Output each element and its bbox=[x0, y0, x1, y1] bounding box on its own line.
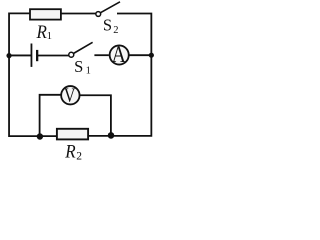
node junction bottom wire / voltmeter left bbox=[37, 133, 43, 139]
label R1 bbox=[36, 21, 53, 42]
wire battery row left bbox=[9, 54, 31, 56]
switch S1 bbox=[69, 42, 93, 57]
label R2 bbox=[64, 141, 82, 163]
svg-text:V: V bbox=[64, 84, 76, 106]
wire battery to S1 bbox=[37, 55, 69, 57]
switch S2 bbox=[96, 2, 120, 17]
wire voltmeter right branch bbox=[80, 95, 111, 135]
wire left rail (top-left corner to bottom-left corner to R2) bbox=[9, 13, 57, 136]
svg-text:2: 2 bbox=[76, 150, 82, 162]
label S1 bbox=[74, 57, 91, 76]
ammeter A bbox=[110, 42, 129, 68]
wire S1 to ammeter bbox=[94, 54, 109, 56]
wire ammeter to right rail bbox=[129, 54, 151, 56]
node junction bottom wire / voltmeter right bbox=[108, 132, 115, 139]
node junction right rail / ammeter row bbox=[149, 53, 154, 58]
wire S2 to top-right corner, right rail, bottom to R2 bbox=[88, 14, 151, 136]
svg-text:S: S bbox=[74, 57, 83, 76]
voltmeter V bbox=[61, 84, 79, 106]
resistor R1 bbox=[30, 9, 61, 19]
label S2 bbox=[103, 16, 119, 36]
svg-text:R: R bbox=[64, 141, 75, 162]
wire R1 to S2 bbox=[61, 13, 96, 15]
resistor R2 bbox=[57, 129, 88, 140]
svg-text:A: A bbox=[112, 42, 127, 68]
battery cell bbox=[31, 44, 37, 67]
svg-text:1: 1 bbox=[47, 31, 52, 42]
svg-text:2: 2 bbox=[113, 25, 118, 36]
wire voltmeter left branch bbox=[40, 95, 62, 137]
node junction left rail / battery row bbox=[6, 53, 11, 58]
svg-text:R: R bbox=[36, 21, 47, 42]
svg-text:S: S bbox=[103, 16, 112, 35]
svg-text:1: 1 bbox=[86, 65, 91, 76]
